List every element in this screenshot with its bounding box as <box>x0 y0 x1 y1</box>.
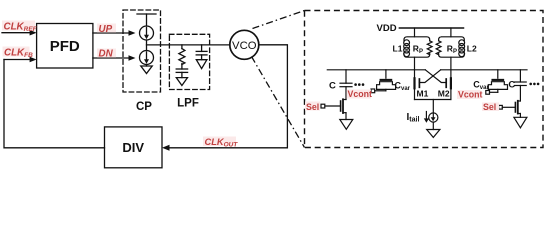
svg-text:VCO: VCO <box>232 40 257 52</box>
svg-text:Sel: Sel <box>306 102 319 112</box>
svg-text:LPF: LPF <box>177 98 199 110</box>
svg-text:Sel: Sel <box>483 102 496 112</box>
svg-text:CP: CP <box>136 101 152 113</box>
svg-text:PFD: PFD <box>50 38 80 55</box>
svg-text:UP: UP <box>99 24 113 35</box>
svg-text:L2: L2 <box>467 44 477 54</box>
svg-text:DIV: DIV <box>122 140 144 155</box>
svg-text:C: C <box>329 81 336 92</box>
svg-text:Vcont: Vcont <box>458 90 483 100</box>
svg-text:Vcont: Vcont <box>348 89 373 99</box>
svg-text:DN: DN <box>99 48 114 59</box>
svg-text:L1: L1 <box>393 44 403 54</box>
svg-text:M2: M2 <box>438 89 450 99</box>
svg-text:C: C <box>508 80 515 91</box>
svg-text:M1: M1 <box>417 89 429 99</box>
svg-text:VDD: VDD <box>377 23 397 34</box>
